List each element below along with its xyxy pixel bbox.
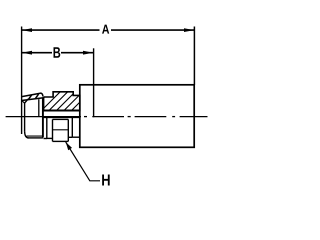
tip face	[24, 103, 26, 132]
arrowhead H	[66, 142, 72, 150]
centerline	[6, 116, 208, 118]
nut right face	[71, 117, 73, 138]
extension line B right	[93, 48, 95, 117]
extension line left	[21, 27, 23, 135]
leader line H	[66, 142, 100, 181]
thread body (male end)	[25, 98, 47, 138]
nut bottom left	[47, 137, 53, 139]
ledge from thread to nut	[44, 138, 48, 140]
hex top edge line	[53, 118, 69, 120]
collar between nut and shell	[72, 136, 80, 138]
nut bottom right	[68, 136, 72, 138]
facet edge	[22, 101, 25, 104]
hex nut (lower half exterior)	[43, 117, 80, 142]
bottom minor dia line	[27, 135, 43, 137]
arrow B right	[83, 51, 93, 55]
hex middle flat bottom	[53, 140, 69, 142]
stem OD line (bold bottom of section)	[43, 110, 80, 112]
bottom major dia line	[28, 137, 43, 139]
arrow A right	[184, 28, 194, 32]
dimension line A	[22, 29, 100, 31]
thread flank ticks	[28, 95, 31, 100]
shell (crimp shell rectangle)	[80, 85, 194, 148]
hex corner right	[67, 119, 69, 141]
thread band (sectioned threads, top of male thread)	[22, 93, 44, 103]
tip chamfer top	[25, 99, 29, 103]
label H	[102, 174, 110, 185]
hex corner left	[52, 119, 54, 141]
label A	[102, 25, 109, 34]
hex chamfer line	[53, 129, 69, 131]
thread runout vertical	[42, 98, 44, 137]
extension line right (A)	[193, 27, 195, 85]
dimension line B	[22, 52, 52, 54]
partial-thread vertical	[38, 99, 40, 116]
tip chamfer bottom (rounded)	[25, 131, 29, 138]
nut top edge on centerline	[43, 116, 80, 118]
arrow B left	[22, 51, 32, 55]
arrow A left	[22, 28, 32, 32]
hatch region (nut section, upper half)	[36, 90, 100, 116]
label B	[54, 47, 61, 58]
nut left face	[46, 117, 48, 138]
